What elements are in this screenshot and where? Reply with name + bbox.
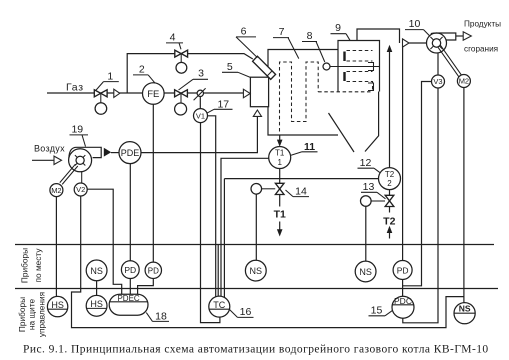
svg-text:PD: PD xyxy=(124,265,136,275)
svg-text:PD: PD xyxy=(148,266,159,275)
svg-text:на щите: на щите xyxy=(27,298,37,330)
svg-text:15: 15 xyxy=(371,304,383,316)
svg-text:9: 9 xyxy=(335,22,341,34)
svg-text:10: 10 xyxy=(409,18,421,30)
svg-text:2: 2 xyxy=(139,64,145,76)
svg-text:V1: V1 xyxy=(196,111,205,120)
svg-text:Газ: Газ xyxy=(66,81,84,93)
svg-text:1: 1 xyxy=(107,71,113,83)
svg-text:управления: управления xyxy=(36,292,46,337)
svg-text:14: 14 xyxy=(295,186,307,198)
svg-text:Приборы: Приборы xyxy=(20,248,30,283)
svg-text:T2: T2 xyxy=(385,170,395,179)
svg-text:T1: T1 xyxy=(274,209,286,221)
svg-text:HS: HS xyxy=(51,300,64,310)
svg-text:M2: M2 xyxy=(51,186,61,195)
svg-text:16: 16 xyxy=(240,306,252,318)
svg-text:по месту: по месту xyxy=(33,248,43,283)
svg-text:T2: T2 xyxy=(383,216,395,228)
svg-text:V2: V2 xyxy=(76,185,85,194)
svg-text:HS: HS xyxy=(90,299,103,309)
svg-text:Воздух: Воздух xyxy=(34,143,65,153)
svg-text:PD: PD xyxy=(397,265,409,275)
svg-text:18: 18 xyxy=(155,310,167,322)
svg-text:11: 11 xyxy=(304,141,315,153)
svg-text:PDC: PDC xyxy=(394,296,412,306)
svg-text:NS: NS xyxy=(459,304,471,314)
svg-text:сгорания: сгорания xyxy=(464,45,498,54)
svg-text:7: 7 xyxy=(279,26,285,38)
svg-text:Продукты: Продукты xyxy=(464,20,501,29)
svg-text:19: 19 xyxy=(71,123,83,135)
svg-text:4: 4 xyxy=(170,32,176,44)
svg-text:Приборы: Приборы xyxy=(17,297,27,332)
svg-text:6: 6 xyxy=(241,26,247,38)
svg-text:8: 8 xyxy=(307,30,313,42)
svg-text:FE: FE xyxy=(147,89,159,100)
svg-text:TC: TC xyxy=(213,300,225,310)
svg-text:3: 3 xyxy=(198,68,204,80)
svg-text:PDEC: PDEC xyxy=(117,294,139,303)
svg-text:NS: NS xyxy=(250,266,263,276)
svg-text:5: 5 xyxy=(227,61,233,73)
svg-text:2: 2 xyxy=(387,179,392,188)
svg-text:Рис. 9.1. Принципиальная схема: Рис. 9.1. Принципиальная схема автоматиз… xyxy=(23,344,489,356)
svg-text:13: 13 xyxy=(363,181,375,193)
svg-text:V3: V3 xyxy=(433,77,442,86)
svg-text:T1: T1 xyxy=(275,149,285,158)
svg-text:NS: NS xyxy=(359,267,372,277)
svg-text:M2: M2 xyxy=(459,77,469,86)
svg-text:PDE: PDE xyxy=(121,148,140,158)
svg-text:NS: NS xyxy=(90,266,103,276)
svg-text:1: 1 xyxy=(277,158,282,167)
svg-text:12: 12 xyxy=(360,157,372,169)
